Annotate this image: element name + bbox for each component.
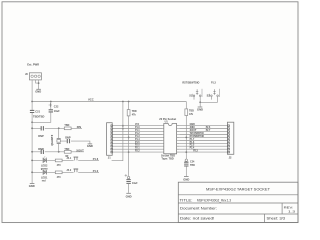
wire LED row 1 (P1.6) xyxy=(32,159,99,161)
resistor R pull-up P1.3 xyxy=(127,102,137,177)
connector J6 Ext_PWR xyxy=(25,63,41,80)
wire LED row 2 (P1.0) xyxy=(32,171,99,173)
wire vertical VCC column xyxy=(112,102,123,161)
connector J2 header xyxy=(227,122,233,160)
svg-text:J5-1: J5-1 xyxy=(66,157,71,160)
junction rail-J6 xyxy=(31,101,33,103)
junction RST row xyxy=(185,137,187,139)
junction row10 xyxy=(185,151,187,153)
svg-text:TBD: TBD xyxy=(64,148,69,151)
svg-text:470: 470 xyxy=(57,176,62,179)
ground crystal branch xyxy=(87,144,93,148)
capacitor C22 (polarized) xyxy=(32,102,60,123)
resistor R pull-up RST xyxy=(185,102,194,160)
svg-text:C21: C21 xyxy=(35,110,40,114)
capacitor C24 (polarized, below socket) xyxy=(184,159,195,176)
wire left GND rail xyxy=(31,122,33,183)
svg-text:Sheet: 3/3: Sheet: 3/3 xyxy=(267,217,286,221)
svg-text:XIN: XIN xyxy=(77,125,82,129)
svg-text:DNP: DNP xyxy=(38,134,44,138)
svg-text:Document Number:: Document Number: xyxy=(180,207,217,211)
J2 pin pads xyxy=(228,125,230,153)
wire stub to ground xyxy=(199,102,201,106)
resistor R27 470 xyxy=(55,171,62,179)
svg-text:red: red xyxy=(42,180,46,183)
svg-text:VCC: VCC xyxy=(88,98,94,102)
socket right pin stubs xyxy=(177,126,180,152)
svg-text:XOUT: XOUT xyxy=(76,148,84,152)
svg-text:Date: not saved!: Date: not saved! xyxy=(180,217,215,221)
capacitor C21 xyxy=(30,102,45,123)
junction rail-vertB xyxy=(128,101,130,103)
wire J6 pins 2,3 to ground xyxy=(36,80,39,89)
ground left rail bottom xyxy=(29,184,35,188)
svg-text:TBD: TBD xyxy=(64,124,69,127)
capacitor C-case (DNP) xyxy=(65,135,71,143)
junction xyxy=(38,82,40,84)
resistor R28 470 xyxy=(55,159,62,167)
wire J6 pin1 to VCC rail xyxy=(31,80,33,102)
LED LED2 green xyxy=(41,156,48,170)
ground below 10uF cap xyxy=(126,193,132,198)
title block xyxy=(178,182,298,222)
socket left pin stubs xyxy=(163,126,164,152)
svg-text:GND: GND xyxy=(35,90,41,94)
svg-text:J5-2: J5-2 xyxy=(66,169,71,172)
svg-text:1.3: 1.3 xyxy=(288,210,295,214)
svg-text:MSP-EXP430G2 TARGET SOCKET: MSP-EXP430G2 TARGET SOCKET xyxy=(206,186,271,191)
svg-text:QUARTZ: QUARTZ xyxy=(50,134,54,145)
jumper J5-2 xyxy=(66,169,78,173)
resistor R-XOUT xyxy=(64,148,71,158)
svg-text:GND: GND xyxy=(183,177,189,181)
wire XOUT row xyxy=(32,151,84,153)
svg-text:TBD/TBD: TBD/TBD xyxy=(33,115,45,119)
svg-text:P1.6: P1.6 xyxy=(93,157,99,161)
junction XIN-crystal xyxy=(58,127,60,129)
junction XOUT-crystal xyxy=(58,151,60,153)
svg-text:10uF: 10uF xyxy=(132,182,138,185)
svg-text:GND: GND xyxy=(87,144,93,148)
svg-text:DNP: DNP xyxy=(65,135,71,139)
svg-text:10uF: 10uF xyxy=(54,110,60,113)
ground buttons xyxy=(197,107,203,112)
wire crystal case branch xyxy=(61,141,90,143)
svg-text:20 Pin Socket: 20 Pin Socket xyxy=(159,117,176,121)
svg-text:C22: C22 xyxy=(54,105,59,108)
wire XIN row xyxy=(32,127,82,129)
svg-text:P2.2: P2.2 xyxy=(135,150,140,153)
svg-text:470: 470 xyxy=(57,164,62,167)
resistor R-XIN xyxy=(64,124,71,130)
crystal Q1 xyxy=(50,128,61,152)
svg-text:RST/SBWTDIO: RST/SBWTDIO xyxy=(182,81,199,85)
junction GND link xyxy=(31,121,33,123)
svg-text:P2.3: P2.3 xyxy=(193,150,198,153)
net labels J1 side xyxy=(135,123,140,152)
svg-text:47k: 47k xyxy=(189,113,194,116)
jumper J5-1 xyxy=(66,157,78,161)
junction rail-C22 xyxy=(50,101,52,103)
ground under J6 xyxy=(35,89,41,93)
capacitor C 10uF (below J1, polarized) xyxy=(125,174,139,193)
svg-text:P1.3: P1.3 xyxy=(211,81,216,85)
svg-text:DNP: DNP xyxy=(38,147,44,151)
IC socket U1 (20 Pin Socket, DIP-20) xyxy=(159,117,176,160)
svg-text:GND: GND xyxy=(29,184,35,188)
svg-text:47k: 47k xyxy=(132,114,137,117)
svg-text:P1.0: P1.0 xyxy=(93,169,99,173)
wire buttons common ground xyxy=(200,101,217,103)
svg-text:TBD: TBD xyxy=(190,164,195,167)
switch S1 (RST) xyxy=(189,89,202,103)
svg-text:GND: GND xyxy=(126,194,132,198)
svg-text:TITLE:: TITLE: xyxy=(180,198,193,202)
switch S2 (P1.3) xyxy=(207,89,220,103)
svg-text:GND: GND xyxy=(197,108,203,112)
net labels J2 side xyxy=(190,123,211,152)
svg-text:Type: TBD: Type: TBD xyxy=(161,157,174,160)
wires J1 rows to socket xyxy=(112,126,162,152)
svg-text:P2.7: P2.7 xyxy=(206,129,211,132)
connector J1 header xyxy=(107,123,113,160)
ground below C24 xyxy=(183,177,189,182)
wires socket to J2 xyxy=(179,126,227,152)
junction rail-vertA xyxy=(122,101,124,103)
svg-text:Ext_PWR: Ext_PWR xyxy=(27,63,40,67)
svg-text:MSP-EXP430G2_Rev.1.3: MSP-EXP430G2_Rev.1.3 xyxy=(197,198,231,202)
J1 pin pads xyxy=(111,125,113,153)
wire VCC rail xyxy=(32,101,186,103)
capacitor C-XOUT (DNP) xyxy=(38,147,44,154)
LED LED1 red xyxy=(41,168,48,182)
capacitor C-XIN (DNP) xyxy=(38,126,44,138)
